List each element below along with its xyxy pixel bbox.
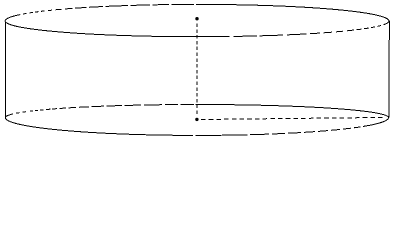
dashed radius line (horizontal) [201, 117, 386, 119]
top ellipse dashed arc (back-left) [23, 4, 194, 14]
bottom ellipse solid arc (front-centre) [196, 134, 248, 137]
bottom ellipse dashed arc (back-left) [16, 105, 194, 114]
top ellipse solid arc (back-right) [196, 4, 389, 24]
top ellipse solid arc (left/front) [5, 15, 229, 37]
centre dot (bottom face) [195, 118, 198, 121]
centre dot (top face) [195, 17, 198, 20]
bottom ellipse solid arc (left/front) [5, 114, 193, 135]
left side line [4, 21, 6, 117]
bottom ellipse solid arc (back-right) [196, 105, 389, 127]
dashed axis line (vertical) [196, 24, 198, 115]
bottom ellipse dashed arc (front-right) [250, 127, 361, 135]
right side line [388, 21, 390, 118]
top ellipse dashed arc (front-right) [234, 26, 381, 37]
